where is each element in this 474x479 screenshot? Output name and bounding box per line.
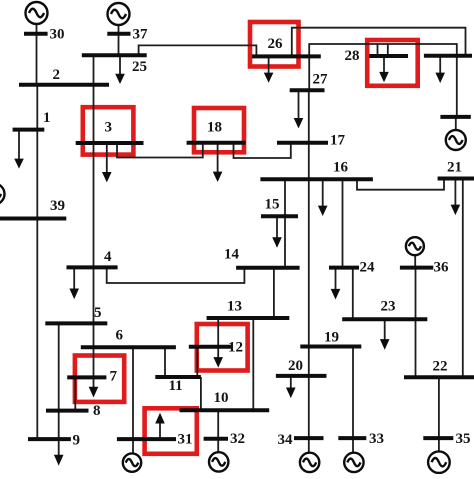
svg-text:27: 27 — [313, 72, 329, 88]
bus 3 — [76, 141, 144, 145]
svg-text:12: 12 — [228, 340, 243, 356]
wire 14-13 — [273, 268, 275, 318]
svg-text:17: 17 — [330, 133, 346, 149]
generator G38 — [446, 130, 466, 150]
svg-text:8: 8 — [93, 403, 101, 419]
svg-text:35: 35 — [456, 431, 471, 447]
bus 25 — [82, 53, 147, 57]
svg-text:25: 25 — [132, 59, 147, 75]
svg-text:6: 6 — [116, 328, 124, 344]
bus 28 — [369, 54, 408, 58]
svg-text:26: 26 — [268, 36, 284, 52]
red box bus 26 — [250, 22, 299, 67]
generator G36 — [406, 237, 424, 255]
wire gen37 to bus37 to bus25 — [118, 25, 120, 55]
wire 16-24 — [342, 179, 344, 267]
bus 5 — [45, 321, 107, 325]
red box bus 12 — [197, 324, 248, 371]
bus 22 — [404, 375, 474, 379]
generator G33 — [344, 453, 363, 472]
svg-text:23: 23 — [381, 299, 396, 315]
generator G34 — [300, 453, 319, 472]
bus 1 — [13, 128, 45, 132]
svg-text:5: 5 — [94, 305, 102, 321]
bus 37 — [107, 32, 130, 36]
wire 25-2-3-4-5-6-7 column — [93, 55, 95, 377]
bus 27 — [290, 88, 325, 92]
wire 22-35 and gen35 stem — [438, 377, 440, 451]
svg-text:18: 18 — [207, 120, 222, 136]
wire 19-33 and gen33 stem — [352, 347, 354, 453]
svg-text:7: 7 — [110, 369, 118, 385]
bus 26 — [252, 54, 321, 58]
red box bus 18 — [194, 108, 244, 152]
wire 12-11 — [196, 347, 198, 377]
wire 4-14 link — [107, 267, 245, 283]
bus 10 — [180, 408, 270, 412]
svg-text:36: 36 — [434, 260, 450, 276]
load arrow bus 7 — [93, 377, 95, 387]
bus 15 — [261, 214, 298, 218]
generator G39 — [0, 184, 5, 205]
svg-text:16: 16 — [333, 160, 349, 176]
bus 11 — [155, 375, 201, 379]
svg-text:19: 19 — [324, 330, 339, 346]
svg-text:3: 3 — [105, 120, 113, 136]
red box bus 7 — [75, 356, 124, 402]
svg-text:39: 39 — [50, 198, 65, 214]
svg-text:24: 24 — [360, 260, 376, 276]
bus 33 — [338, 436, 366, 440]
bus 30 — [24, 32, 48, 36]
wire stub 28 left — [377, 44, 379, 56]
load arrow bus 4 — [73, 267, 75, 289]
wire 24-23 — [352, 268, 354, 320]
wire gen30 to bus30 to bus2 — [36, 24, 38, 85]
svg-text:15: 15 — [265, 197, 280, 213]
generator G31 — [123, 453, 141, 471]
wire 16-15-14 — [284, 179, 286, 268]
svg-text:10: 10 — [214, 390, 229, 406]
generator G37 — [108, 3, 130, 25]
svg-text:4: 4 — [104, 249, 112, 265]
bus 14 — [236, 266, 300, 270]
wire 26-28-29 link — [309, 44, 457, 56]
bus 29 — [424, 54, 472, 58]
svg-text:20: 20 — [288, 358, 303, 374]
svg-text:30: 30 — [50, 27, 65, 43]
wire stub 28 right — [387, 44, 389, 56]
bus 36 — [400, 266, 433, 270]
red box bus 31 — [145, 408, 197, 454]
svg-text:1: 1 — [43, 110, 51, 126]
svg-text:31: 31 — [178, 432, 193, 448]
load arrow bus 24 — [335, 268, 337, 290]
bus 9 — [28, 437, 71, 441]
svg-text:33: 33 — [369, 431, 384, 447]
bus 23 — [342, 317, 427, 321]
bus 38 — [440, 115, 470, 119]
bus 31 — [117, 437, 176, 441]
bus 18 — [187, 141, 246, 145]
wire 13-12 and load arrow bus 12 — [217, 318, 219, 358]
load arrow bus 21 — [454, 179, 456, 206]
gen arrow bus 31 (up) — [159, 423, 161, 439]
wire 6-31 and gen31 stem — [132, 347, 134, 453]
load arrow bus 28 — [383, 56, 385, 72]
load arrow bus 3 — [106, 143, 108, 172]
bus 20 — [276, 374, 327, 378]
wire 10-32 and gen32 stem — [217, 410, 219, 452]
svg-text:28: 28 — [345, 48, 360, 64]
bus 34 — [294, 436, 324, 440]
svg-text:9: 9 — [73, 433, 81, 449]
load arrow bus 23 — [384, 319, 386, 339]
wire 27-17-16-19-20-34 column — [308, 90, 310, 453]
load arrow bus 16 — [322, 179, 324, 206]
wire gen36 stem — [414, 255, 416, 267]
bus 16 — [260, 177, 373, 181]
svg-text:13: 13 — [227, 299, 242, 315]
wire 29-38 — [456, 56, 458, 117]
wire 7-8 — [74, 377, 76, 410]
wire 16-21 link — [357, 179, 444, 190]
bus 13 — [207, 316, 290, 320]
svg-text:32: 32 — [230, 431, 245, 447]
wire 11-10 — [200, 377, 202, 410]
wire 2-1-39-9 column — [36, 85, 38, 439]
wire 5-8-9 and load arrow bus 9 — [58, 323, 60, 455]
svg-text:22: 22 — [433, 359, 448, 375]
wire 18-17 link — [234, 143, 291, 158]
bus 17 — [277, 141, 328, 145]
generator G35 — [428, 451, 450, 473]
red box bus 3 — [83, 107, 134, 154]
load arrow bus 18 — [217, 143, 219, 172]
load arrow bus 15 — [276, 216, 278, 238]
bus 12 — [189, 345, 232, 349]
bus 4 — [67, 265, 118, 269]
bus 35 — [423, 436, 453, 440]
wire 26-27 — [308, 56, 310, 90]
wire 13-10 — [252, 318, 254, 410]
wire 21-22 — [462, 179, 464, 378]
load arrow bus 27 — [298, 90, 300, 118]
svg-text:14: 14 — [224, 247, 240, 263]
svg-text:37: 37 — [133, 27, 149, 43]
load arrow bus 25 — [119, 55, 121, 74]
wire 3-18 link — [117, 143, 203, 158]
bus 32 — [204, 437, 228, 441]
wire gen38 stem — [455, 117, 457, 131]
red box bus 28 — [367, 40, 418, 86]
wire 25-26 link — [139, 45, 257, 56]
load arrow bus 20 — [290, 376, 292, 388]
bus 19 — [300, 345, 361, 349]
load arrow bus 1 — [18, 130, 20, 159]
wire 26-29 link — [292, 28, 466, 57]
svg-text:34: 34 — [278, 432, 294, 448]
svg-text:21: 21 — [447, 160, 462, 176]
bus 6 — [81, 345, 176, 349]
bus 24 — [329, 266, 359, 270]
wire 36-23-22 — [415, 268, 417, 378]
svg-text:2: 2 — [53, 67, 61, 83]
bus 7 — [67, 375, 106, 379]
bus 39 — [0, 217, 66, 221]
wire 6-11 — [164, 347, 166, 377]
bus 2 — [19, 83, 109, 87]
generator G32 — [209, 452, 228, 471]
load arrow bus 26 — [268, 56, 270, 73]
generator G30 — [26, 2, 48, 24]
svg-text:11: 11 — [169, 378, 183, 394]
bus 8 — [46, 409, 89, 413]
bus 21 — [438, 177, 474, 181]
load arrow bus 29 — [439, 56, 441, 73]
